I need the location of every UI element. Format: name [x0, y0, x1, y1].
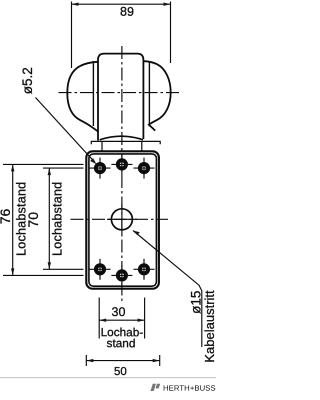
cable exit hole: [107, 205, 137, 235]
dimension 70 extension top: [43, 167, 84, 169]
top view right lens flat edge: [148, 62, 150, 127]
front view horizontal centerline: [71, 218, 169, 220]
dimension 70 line: [48, 168, 51, 269]
footer separator rule: [0, 377, 216, 379]
top view right lens dome: [144, 61, 171, 130]
svg-text:30: 30: [112, 305, 126, 319]
leader line for hole diameter 5.2: [36, 98, 97, 165]
vertical centerline through both views: [121, 46, 123, 302]
dimension 70 extension bottom: [43, 268, 84, 270]
dimension 76 extension top: [3, 163, 84, 165]
dimension 30 extension left: [98, 298, 100, 339]
svg-text:70: 70: [25, 212, 41, 228]
top view left lens dome: [67, 62, 98, 132]
screw hole bottom-left: [90, 259, 111, 280]
leader line for cable exit: [133, 231, 202, 348]
front view outer housing: [86, 151, 159, 288]
front view inner housing: [89, 154, 156, 286]
dimension 30 extension right: [144, 298, 146, 339]
svg-text:stand: stand: [107, 336, 136, 350]
top view body: [98, 54, 143, 141]
top view neck left: [101, 141, 103, 151]
dimension 50 line: [86, 359, 159, 362]
top view horizontal centerline: [59, 92, 181, 94]
screw hole top-right: [134, 158, 155, 179]
svg-text:50: 50: [114, 366, 127, 378]
svg-text:HERTH+BUSS: HERTH+BUSS: [163, 384, 216, 393]
dimension 89 extension line right: [170, 2, 172, 64]
svg-text:ø5.2: ø5.2: [20, 67, 35, 94]
top view housing arch: [100, 136, 143, 140]
top view neck right: [141, 141, 143, 151]
screw hole bottom-right: [134, 259, 155, 280]
screw hole top-left: [90, 158, 111, 179]
svg-text:Kabelaustritt: Kabelaustritt: [202, 290, 216, 363]
top view left lens flat edge: [92, 61, 94, 126]
Herth+Buss logo icon: [151, 384, 161, 391]
dimension 89 line: [72, 2, 171, 5]
svg-text:Lochabstand: Lochabstand: [50, 182, 64, 256]
top view base flange: [91, 141, 160, 144]
dimension 89 extension line left: [71, 2, 73, 69]
dimension 30 line: [99, 319, 144, 322]
svg-text:76: 76: [0, 209, 13, 225]
screw hole top-middle: [111, 154, 132, 175]
svg-text:89: 89: [120, 5, 134, 19]
dimension 76 line: [11, 164, 14, 275]
dimension 50 extension left: [85, 355, 87, 366]
screw hole bottom-middle: [111, 265, 132, 286]
dimension 50 extension right: [159, 355, 161, 366]
dimension 76 extension bottom: [3, 274, 84, 276]
